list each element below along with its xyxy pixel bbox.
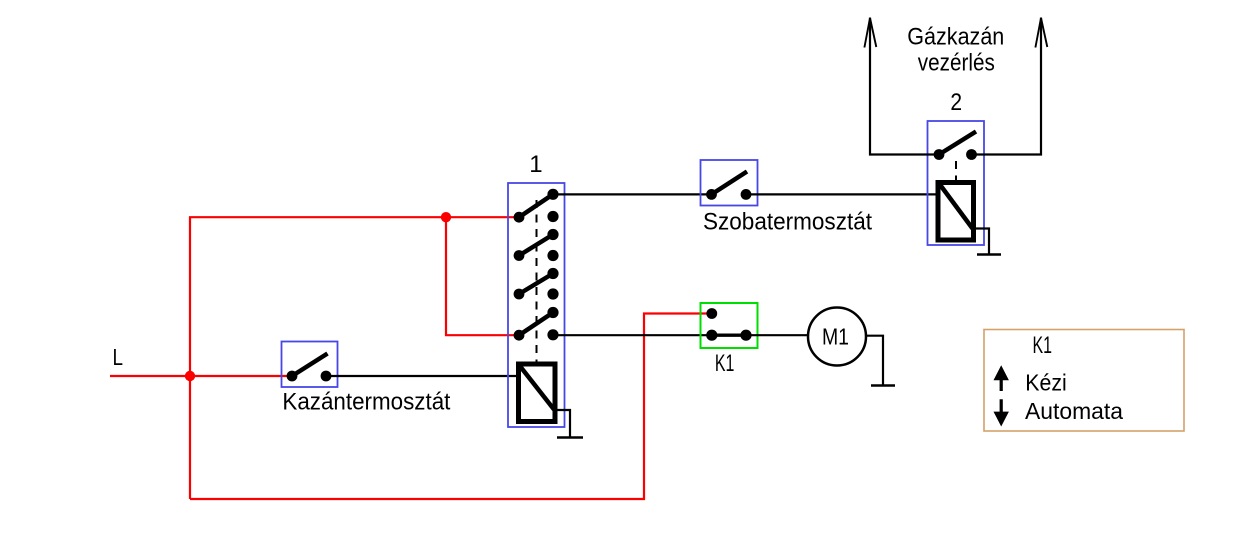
wire red drop to relay 1 pole 4: [446, 217, 519, 335]
wire Kazántermosztát to relay 1 coil: [326, 375, 519, 377]
wire relay 1 pole 4 to K1: [553, 334, 712, 336]
wire relay 1 pole 1 to Szobatermosztát: [553, 193, 711, 195]
svg-text:1: 1: [529, 151, 542, 178]
svg-text:M1: M1: [822, 324, 849, 350]
svg-text:L: L: [113, 344, 124, 370]
wire right output arrow: [972, 18, 1048, 155]
svg-text:Gázkazán: Gázkazán: [907, 23, 1004, 50]
svg-text:2: 2: [950, 89, 962, 116]
relay 2 switch: [934, 132, 977, 160]
wire relay 1 coil to ground: [554, 410, 570, 437]
switch Szobatermosztát: [701, 160, 758, 206]
relay 2 enclosure: [928, 121, 985, 245]
legend box K1: [984, 330, 1184, 432]
svg-text:K1: K1: [715, 350, 735, 377]
wire K1 to motor M1: [746, 334, 808, 336]
motor M1: [808, 308, 866, 366]
legend down arrow Automata: [994, 399, 1009, 426]
switch K1: [701, 303, 758, 348]
wire L lead (red): [110, 375, 292, 377]
svg-text:K1: K1: [1032, 332, 1052, 359]
ground relay 1: [557, 436, 583, 439]
ground relay 2: [977, 253, 1001, 256]
svg-text:vezérlés: vezérlés: [918, 49, 995, 76]
relay 1 coil: [519, 364, 556, 422]
relay 1 pole 4 switch: [514, 307, 559, 341]
label Gázkazán vezérlés: [907, 23, 1004, 76]
node L junction: [185, 371, 195, 381]
relay 1 pole 2 switch: [514, 229, 559, 261]
relay 2 coil: [938, 183, 974, 241]
wire M1 to ground: [865, 336, 883, 385]
wire red top feed to relay 1 pole 1: [189, 216, 519, 218]
wire left output arrow: [864, 18, 939, 155]
relay 1 pole 1 switch: [514, 189, 559, 223]
switch Kazántermosztát: [282, 342, 338, 388]
relay 1 pole 3 switch: [514, 268, 559, 300]
wire red riser left: [189, 217, 191, 500]
ground M1: [871, 384, 895, 387]
node junction red top: [441, 212, 451, 222]
relay 1 actuator dashed link: [536, 200, 538, 362]
svg-text:Kézi: Kézi: [1025, 369, 1067, 395]
wire relay 2 coil to ground: [973, 229, 989, 255]
wire red bottom bus: [190, 314, 708, 500]
svg-text:Szobatermosztát: Szobatermosztát: [703, 209, 872, 236]
svg-text:Automata: Automata: [1025, 398, 1123, 424]
wire Szobatermosztát to relay 2 coil: [746, 193, 938, 195]
legend up arrow Kézi: [994, 365, 1009, 391]
relay 2 actuator dashed link: [955, 161, 957, 181]
relay 1 enclosure: [508, 183, 565, 427]
svg-text:Kazántermosztát: Kazántermosztát: [282, 389, 450, 416]
